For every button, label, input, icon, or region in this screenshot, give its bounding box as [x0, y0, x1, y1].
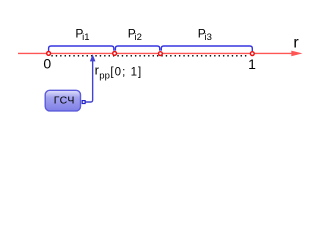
node 1 (red circle)	[250, 52, 254, 56]
RNG box (ГСЧ)	[45, 90, 80, 111]
brace P_i3	[161, 46, 252, 51]
node between P_i1 and P_i2	[113, 52, 117, 56]
node between P_i2 and P_i3	[159, 52, 163, 56]
axis arrowhead	[291, 51, 302, 57]
label P_i3	[198, 27, 212, 43]
svg-text:r: r	[293, 35, 299, 52]
svg-text:i2: i2	[135, 32, 142, 43]
axis r (red horizontal line)	[18, 52, 294, 54]
dotted baseline	[52, 55, 250, 57]
svg-text:1: 1	[248, 56, 256, 72]
up arrowhead on wire	[90, 54, 96, 61]
label P_i1	[75, 27, 89, 43]
label r_pp [0; 1]	[95, 63, 143, 82]
brace P_i1	[49, 46, 114, 51]
svg-text:i3: i3	[205, 32, 212, 43]
svg-text:ГСЧ: ГСЧ	[54, 95, 75, 107]
label P_i2	[128, 27, 142, 43]
svg-text:pp: pp	[99, 71, 110, 82]
svg-text:0: 0	[43, 56, 51, 72]
svg-text:[0; 1]: [0; 1]	[110, 66, 142, 78]
wire from RNG box (right then up)	[85, 61, 92, 103]
node 0 (red circle)	[47, 52, 51, 56]
svg-text:i1: i1	[82, 32, 89, 43]
connector pin on RNG box	[82, 101, 85, 104]
brace P_i2	[115, 46, 159, 51]
